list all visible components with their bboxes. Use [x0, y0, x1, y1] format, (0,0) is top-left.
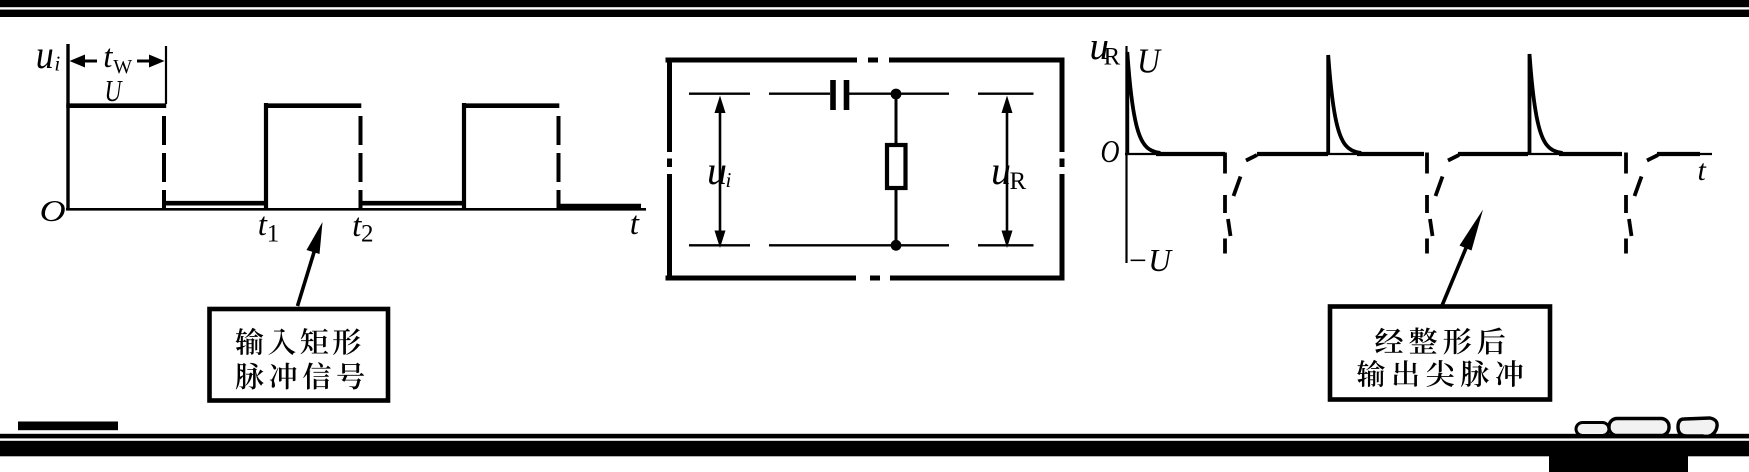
- output spike 1: [1127, 52, 1160, 154]
- zero segment at axis end: [1657, 152, 1700, 156]
- top node junction dot: [891, 89, 902, 100]
- svg-text:u: u: [36, 32, 54, 77]
- zero segment before spike 2: [1257, 152, 1328, 156]
- capacitor C left plate: [830, 80, 836, 110]
- capacitor C right plate: [844, 80, 850, 110]
- input waveform vertical axis u_i: [66, 44, 69, 210]
- zero segment after spike 3: [1559, 152, 1622, 156]
- top wire segment to capacitor: [769, 92, 830, 94]
- first dashed negative spike: [1225, 153, 1257, 254]
- output label box: [1330, 307, 1550, 400]
- svg-text:t: t: [630, 206, 640, 242]
- dimension extension line at pulse 1 end: [165, 46, 167, 104]
- pulse 2 top: [264, 103, 361, 108]
- output label text line 2: 输出尖脉冲: [1357, 360, 1523, 387]
- pulse 3 rising edge: [462, 103, 466, 209]
- circuit enclosure dash-dot border top: [666, 58, 1065, 63]
- t_W dimension left arrow: [70, 55, 98, 68]
- pulse 1 top: [66, 103, 166, 108]
- output label text line 1: 经整形后: [1375, 327, 1505, 354]
- u_R dimension arrow (double headed): [1002, 96, 1013, 249]
- svg-text:i: i: [54, 52, 60, 76]
- pulse 2 falling edge t2 (dashed): [359, 116, 363, 208]
- callout arrow to input waveform: [298, 222, 323, 306]
- input label text line 1: 输入矩形: [235, 328, 360, 355]
- circuit enclosure dash-dot border bottom: [666, 276, 1065, 281]
- input label box: [210, 309, 389, 401]
- svg-text:i: i: [726, 168, 732, 192]
- callout arrow to output waveform: [1441, 210, 1483, 309]
- svg-text:2: 2: [361, 221, 374, 248]
- chalk piece small left: [1576, 423, 1609, 436]
- top wire segment input side: [689, 92, 750, 94]
- second dashed negative spike: [1427, 153, 1459, 254]
- bottom wire segment output side: [978, 244, 1034, 246]
- svg-text:t: t: [1698, 154, 1707, 187]
- resistor R body: [887, 145, 906, 188]
- pulse 3 falling edge (dashed): [557, 116, 561, 208]
- svg-text:t: t: [103, 39, 113, 75]
- svg-text:R: R: [1010, 168, 1027, 195]
- zero level segment 1: [164, 201, 266, 206]
- bottom wire middle segment: [769, 244, 949, 246]
- chalk piece right: [1678, 418, 1717, 436]
- zero segment after spike 1: [1156, 152, 1225, 156]
- top wire capacitor to node: [849, 92, 949, 94]
- svg-text:O: O: [40, 193, 66, 228]
- pulse 3 top: [462, 103, 559, 108]
- svg-text:u: u: [707, 148, 727, 193]
- zero segment before spike 3: [1458, 152, 1528, 156]
- output spike 3: [1530, 54, 1563, 154]
- svg-text:U: U: [105, 73, 124, 108]
- wire resistor to bottom node: [895, 188, 898, 246]
- svg-text:U: U: [1137, 42, 1162, 81]
- t_W dimension right arrow: [137, 55, 165, 68]
- input waveform horizontal axis t: [66, 208, 646, 211]
- input label text line 2: 脉冲信号: [236, 362, 364, 389]
- svg-text:O: O: [1101, 133, 1120, 169]
- svg-text:−U: −U: [1127, 242, 1173, 278]
- zero segment after spike 2: [1357, 152, 1424, 156]
- third dashed negative spike: [1626, 153, 1658, 254]
- circuit enclosure dash-dot border right: [1060, 58, 1065, 281]
- svg-text:1: 1: [267, 221, 280, 248]
- output spike 2: [1328, 55, 1361, 154]
- pulse 1 falling edge (dashed): [162, 116, 166, 208]
- svg-text:u: u: [991, 148, 1011, 193]
- bottom node junction dot: [891, 240, 902, 251]
- top wire segment output side: [978, 92, 1034, 94]
- output waveform horizontal axis t: [1125, 153, 1712, 155]
- chalk piece large middle: [1609, 419, 1669, 436]
- circuit enclosure dash-dot border left: [667, 58, 672, 281]
- svg-text:R: R: [1104, 44, 1121, 71]
- zero level segment 3: [559, 204, 642, 209]
- pulse 2 rising edge t1: [264, 103, 268, 209]
- output waveform vertical axis: [1125, 46, 1127, 263]
- bottom wire segment input side: [689, 244, 750, 246]
- wire node to resistor: [895, 94, 898, 146]
- u_i dimension arrow (double headed): [715, 96, 726, 249]
- zero level segment 2: [361, 201, 465, 206]
